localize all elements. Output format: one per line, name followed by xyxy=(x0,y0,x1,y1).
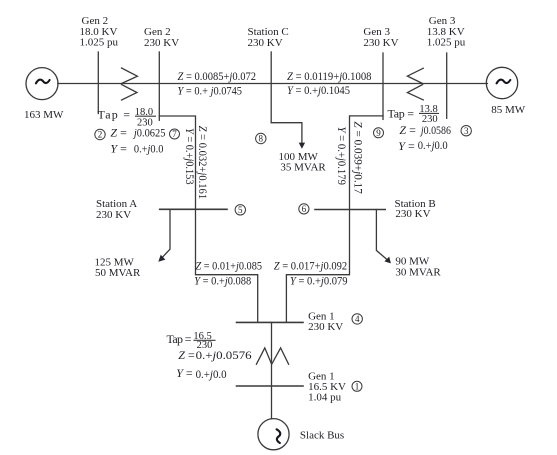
node 2 bus Gen2 18.0 KV xyxy=(97,52,99,114)
wire line 9-6 and 6-4 (Station B path) xyxy=(286,116,383,323)
svg-text:0.+j0.0: 0.+j0.0 xyxy=(134,141,164,155)
transformer T1 chevrons xyxy=(256,348,288,364)
node 8 bus Station C 230 KV xyxy=(270,52,272,123)
fraction bar tap 13.8/230 xyxy=(420,112,439,114)
svg-text:230 KV: 230 KV xyxy=(248,37,283,49)
node 9 bus Gen3 230 KV xyxy=(382,53,384,119)
svg-text:1.04 pu: 1.04 pu xyxy=(308,392,342,404)
node 6 bus Station B xyxy=(315,209,385,211)
svg-text:Y =: Y = xyxy=(398,139,415,153)
arrowhead load C xyxy=(299,143,305,149)
node 4 circle xyxy=(352,314,362,324)
node 2 circle xyxy=(95,129,105,139)
svg-text:230 KV: 230 KV xyxy=(308,321,343,333)
svg-text:Tap =: Tap = xyxy=(98,108,131,122)
load at Station A wire xyxy=(160,209,170,259)
svg-text:Tap =: Tap = xyxy=(167,332,192,346)
node 9 circle xyxy=(374,128,384,138)
svg-text:Z =: Z = xyxy=(178,348,195,362)
generator G1 slack xyxy=(258,419,289,450)
svg-text:Y =: Y = xyxy=(110,141,127,155)
svg-text:Z = 0.0085+j0.072: Z = 0.0085+j0.072 xyxy=(178,69,256,83)
svg-text:50 MVAR: 50 MVAR xyxy=(95,267,141,279)
node 6 circle xyxy=(299,204,309,214)
svg-text:35 MVAR: 35 MVAR xyxy=(280,161,326,173)
svg-text:7: 7 xyxy=(172,129,177,139)
generator G3 (85 MW) xyxy=(486,67,517,98)
svg-text:4: 4 xyxy=(355,314,360,324)
node 5 bus Station A xyxy=(160,208,227,210)
load at Station C wire xyxy=(271,123,302,144)
svg-text:230 KV: 230 KV xyxy=(395,208,430,220)
svg-text:Z = 0.017+j0.092: Z = 0.017+j0.092 xyxy=(274,259,348,273)
svg-text:5: 5 xyxy=(238,205,243,215)
svg-text:Z = 0.032+j0.161: Z = 0.032+j0.161 xyxy=(196,126,210,200)
svg-text:1.025 pu: 1.025 pu xyxy=(427,37,466,49)
wire gen1 vertical xyxy=(271,322,273,418)
transformer T2 chevrons xyxy=(122,68,138,100)
circled node numbers xyxy=(95,126,472,392)
svg-text:3: 3 xyxy=(464,126,469,136)
svg-text:18.0: 18.0 xyxy=(135,107,153,118)
svg-text:Y = 0.+j0.079: Y = 0.+j0.079 xyxy=(290,274,348,288)
node 8 circle xyxy=(256,133,266,143)
svg-text:Y = 0.+j0.1045: Y = 0.+j0.1045 xyxy=(287,83,350,97)
svg-text:Z = 0.01+j0.085: Z = 0.01+j0.085 xyxy=(196,259,263,273)
node 5 circle xyxy=(235,205,245,215)
svg-text:j0.0625: j0.0625 xyxy=(132,125,165,139)
svg-text:Z =: Z = xyxy=(399,123,416,137)
node 4 bus Gen1 230 KV xyxy=(237,321,304,323)
fraction bar tap 16.5/230 xyxy=(194,339,215,341)
svg-text:0.+j0.0: 0.+j0.0 xyxy=(418,138,448,152)
svg-text:9: 9 xyxy=(376,128,381,138)
svg-text:Z = 0.0119+j0.1008: Z = 0.0119+j0.1008 xyxy=(287,69,372,83)
svg-text:0.+j0.0: 0.+j0.0 xyxy=(196,367,227,381)
svg-text:230 KV: 230 KV xyxy=(96,209,131,221)
svg-text:2: 2 xyxy=(98,130,103,140)
node 1 circle xyxy=(352,381,362,391)
svg-text:1: 1 xyxy=(355,382,360,392)
svg-text:230 KV: 230 KV xyxy=(363,37,398,49)
load at Station B wire xyxy=(376,210,388,261)
svg-text:85 MW: 85 MW xyxy=(491,104,526,116)
node 7 circle xyxy=(170,129,180,139)
wire main horizontal line bus2 to gen3 xyxy=(58,83,488,85)
svg-text:Y =: Y = xyxy=(176,366,193,380)
fraction bar tap 18.0/230 xyxy=(136,115,156,117)
svg-text:0.+j0.0576: 0.+j0.0576 xyxy=(196,348,252,362)
node 3 bus Gen3 13.8 KV xyxy=(446,53,448,118)
svg-text:Z =: Z = xyxy=(110,125,127,139)
svg-text:Z = 0.039+j0.17: Z = 0.039+j0.17 xyxy=(351,121,365,193)
node 3 circle xyxy=(461,126,471,136)
svg-text:6: 6 xyxy=(302,204,307,214)
svg-text:230 KV: 230 KV xyxy=(144,37,179,49)
arrowhead load B xyxy=(384,257,391,264)
node 1 bus Gen1 16.5 KV xyxy=(237,385,304,387)
svg-text:1.025 pu: 1.025 pu xyxy=(80,37,119,49)
svg-text:Y = 0.+j0.088: Y = 0.+j0.088 xyxy=(194,274,251,288)
svg-text:8: 8 xyxy=(259,134,264,144)
wire line 7-5 and 5-4 (Station A path) xyxy=(159,116,257,322)
svg-text:30 MVAR: 30 MVAR xyxy=(395,267,441,279)
generator G2 (163 MW) xyxy=(26,68,58,100)
svg-text:Y = 0.+ j0.0745: Y = 0.+ j0.0745 xyxy=(178,83,243,97)
svg-text:163 MW: 163 MW xyxy=(24,109,64,121)
svg-text:Slack Bus: Slack Bus xyxy=(300,430,344,442)
node 7 bus Gen2 230 KV xyxy=(158,52,160,120)
svg-text:Tap =: Tap = xyxy=(388,107,415,121)
svg-text:j0.0586: j0.0586 xyxy=(419,123,451,137)
transformer T3 chevrons xyxy=(407,68,423,100)
arrowhead load A xyxy=(158,255,165,262)
svg-text:Y = 0.+j0.153: Y = 0.+j0.153 xyxy=(183,128,197,185)
svg-text:Y = 0.+j0.179: Y = 0.+j0.179 xyxy=(335,127,349,186)
